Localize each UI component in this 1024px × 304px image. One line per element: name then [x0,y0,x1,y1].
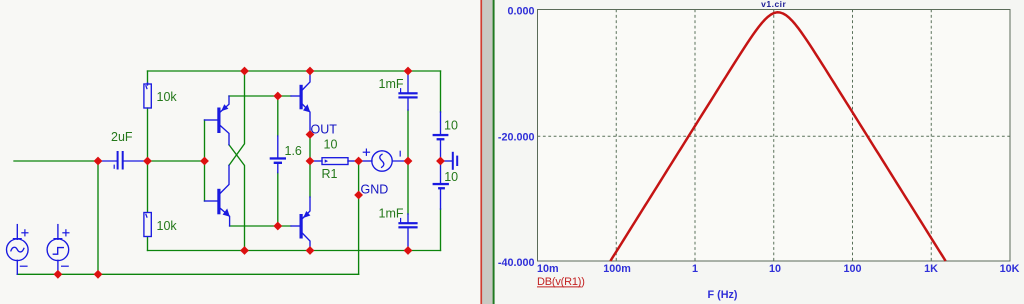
capacitor C3 1mF bottom [398,214,417,251]
svg-text:10: 10 [324,138,338,152]
node: battery mid x440 [436,157,445,166]
wire bottom rail [148,250,441,252]
plot box [538,10,1011,262]
svg-text:1mF: 1mF [379,77,404,91]
node: bottom rail x408 [404,246,413,255]
svg-text:R1: R1 [322,167,338,181]
wire top rail [148,70,441,72]
node: 2uF right [143,157,152,166]
wire GND column [358,161,360,274]
battery V5 10 top [433,112,449,161]
source V4 AC [359,149,408,171]
resistor R2 10k top [144,83,151,108]
node: y226 battery bottom [273,222,282,231]
curve DB(v(R1)) [610,12,945,261]
svg-text:1.6: 1.6 [285,144,302,158]
capacitor C1 2uF [98,152,148,169]
svg-text:10: 10 [444,170,458,184]
battery V6 10 bottom [433,161,449,209]
plot pane background [495,0,1024,304]
grid vertical 100m [615,10,617,262]
schematic pane background [0,0,480,304]
svg-text:F (Hz): F (Hz) [708,289,738,301]
svg-text:10k: 10k [157,219,178,233]
svg-text:10: 10 [444,119,458,133]
svg-text:10K: 10K [1000,263,1020,275]
splitter green line [493,0,495,304]
svg-text:-40.000: -40.000 [498,257,535,269]
node: top rail x245 [240,67,249,76]
grid vertical 1K [930,10,932,262]
wire column x98 down [97,161,99,274]
resistor R1 10 [310,158,359,165]
node: AC right x408 [404,157,413,166]
wire battery branch x440 top/bottom [440,71,442,251]
svg-text:10m: 10m [537,263,559,275]
grid vertical 1 [694,10,696,262]
source V1 sine [6,225,28,275]
node: OUT [306,130,315,139]
svg-text:10: 10 [769,263,781,275]
svg-text:DB(v(R1)): DB(v(R1)) [537,276,585,288]
capacitor C2 1mF top [398,72,417,111]
node: input left [94,157,103,166]
wire 1mF column x408 [407,110,409,214]
svg-text:-20.000: -20.000 [498,131,535,143]
grid vertical 10 [773,10,775,262]
svg-text:OUT: OUT [311,123,338,137]
svg-text:GND: GND [361,183,389,197]
wire cross strand A (x245 top to Q2 collector) [229,71,245,165]
node: bottom rail x310 [306,246,315,255]
svg-text:2uF: 2uF [111,130,133,144]
node: sources wire x58 [54,270,63,279]
grid vertical 100 [852,10,854,262]
node: top rail x408 [404,67,413,76]
wire bottom sources row [17,273,358,275]
node: R1 right [354,157,363,166]
grid horizontal -20dB [538,135,1011,137]
ground symbol (rotated) at battery midpoint [443,153,457,169]
node: bottom rail x245 [240,246,249,255]
wire y96 (Q1 emitter to Q3 base) [229,95,291,97]
node: GND [354,191,363,200]
wire y226 (Q2 emitter to Q4 base) [230,225,291,227]
wire bases column x204 [204,120,206,201]
splitter gray band [482,0,493,304]
splitter red line [480,0,482,304]
battery V3 1.6 [270,136,286,173]
svg-text:0.000: 0.000 [507,5,534,17]
node: sources wire x98 [94,270,103,279]
source V2 step [47,225,69,275]
node: bases [200,157,209,166]
svg-text:v1.cir: v1.cir [761,0,786,9]
wire mid row between caps [148,160,205,162]
svg-text:100m: 100m [603,263,631,275]
svg-text:1mF: 1mF [379,207,404,221]
svg-text:10k: 10k [157,90,178,104]
svg-text:1: 1 [692,263,698,275]
wire cross strand B (Q1 collector to x245 bottom) [229,145,245,251]
svg-text:100: 100 [843,263,861,275]
transistor Q2 NPN bottom-left [205,165,230,226]
wire column x147 (10k branch) [147,71,149,251]
transistor Q3 NPN top-right [291,71,310,135]
transistor Q4 PNP bottom-right [291,197,310,251]
resistor R3 10k bottom [144,213,151,237]
transistor Q1 PNP top-left [205,96,230,145]
node: R1 left [306,157,315,166]
node: y96 battery top [273,92,282,101]
node: top rail x310 [306,67,315,76]
wire input row left [14,160,98,162]
svg-text:1K: 1K [924,263,938,275]
wire battery V3 column x277 [277,96,279,226]
wire OUT column [309,135,311,198]
